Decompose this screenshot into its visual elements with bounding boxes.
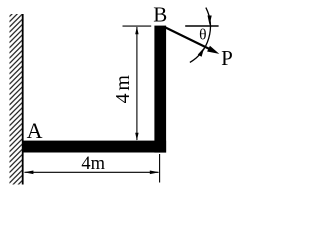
right extension tick: [159, 154, 161, 183]
wall edge line: [22, 14, 24, 185]
vertical dim extension tick at top: [123, 25, 152, 27]
horizontal dim right arrow: [150, 171, 160, 175]
wall hatching: [10, 14, 23, 185]
force P vector line: [165, 27, 210, 49]
vertical member corner-B: [154, 26, 166, 153]
arc arrowhead at P line: [198, 47, 205, 56]
angle arc: [190, 8, 211, 63]
horizontal dim left arrow: [24, 171, 34, 175]
vertical dimension line: [136, 27, 138, 140]
svg-text:4m: 4m: [112, 72, 134, 103]
arc arrowhead at reference line: [208, 16, 212, 26]
force P arrowhead: [207, 46, 219, 54]
svg-text:4m: 4m: [81, 154, 105, 174]
vertical dim top arrow: [135, 27, 138, 35]
horizontal dimension line: [25, 171, 159, 173]
horizontal reference line at B: [185, 25, 218, 27]
svg-text:P: P: [221, 46, 233, 70]
horizontal member A-corner: [23, 141, 166, 153]
svg-text:θ: θ: [199, 26, 206, 43]
svg-text:B: B: [153, 2, 167, 26]
vertical dim bottom arrow: [135, 133, 138, 141]
svg-text:A: A: [27, 118, 43, 143]
